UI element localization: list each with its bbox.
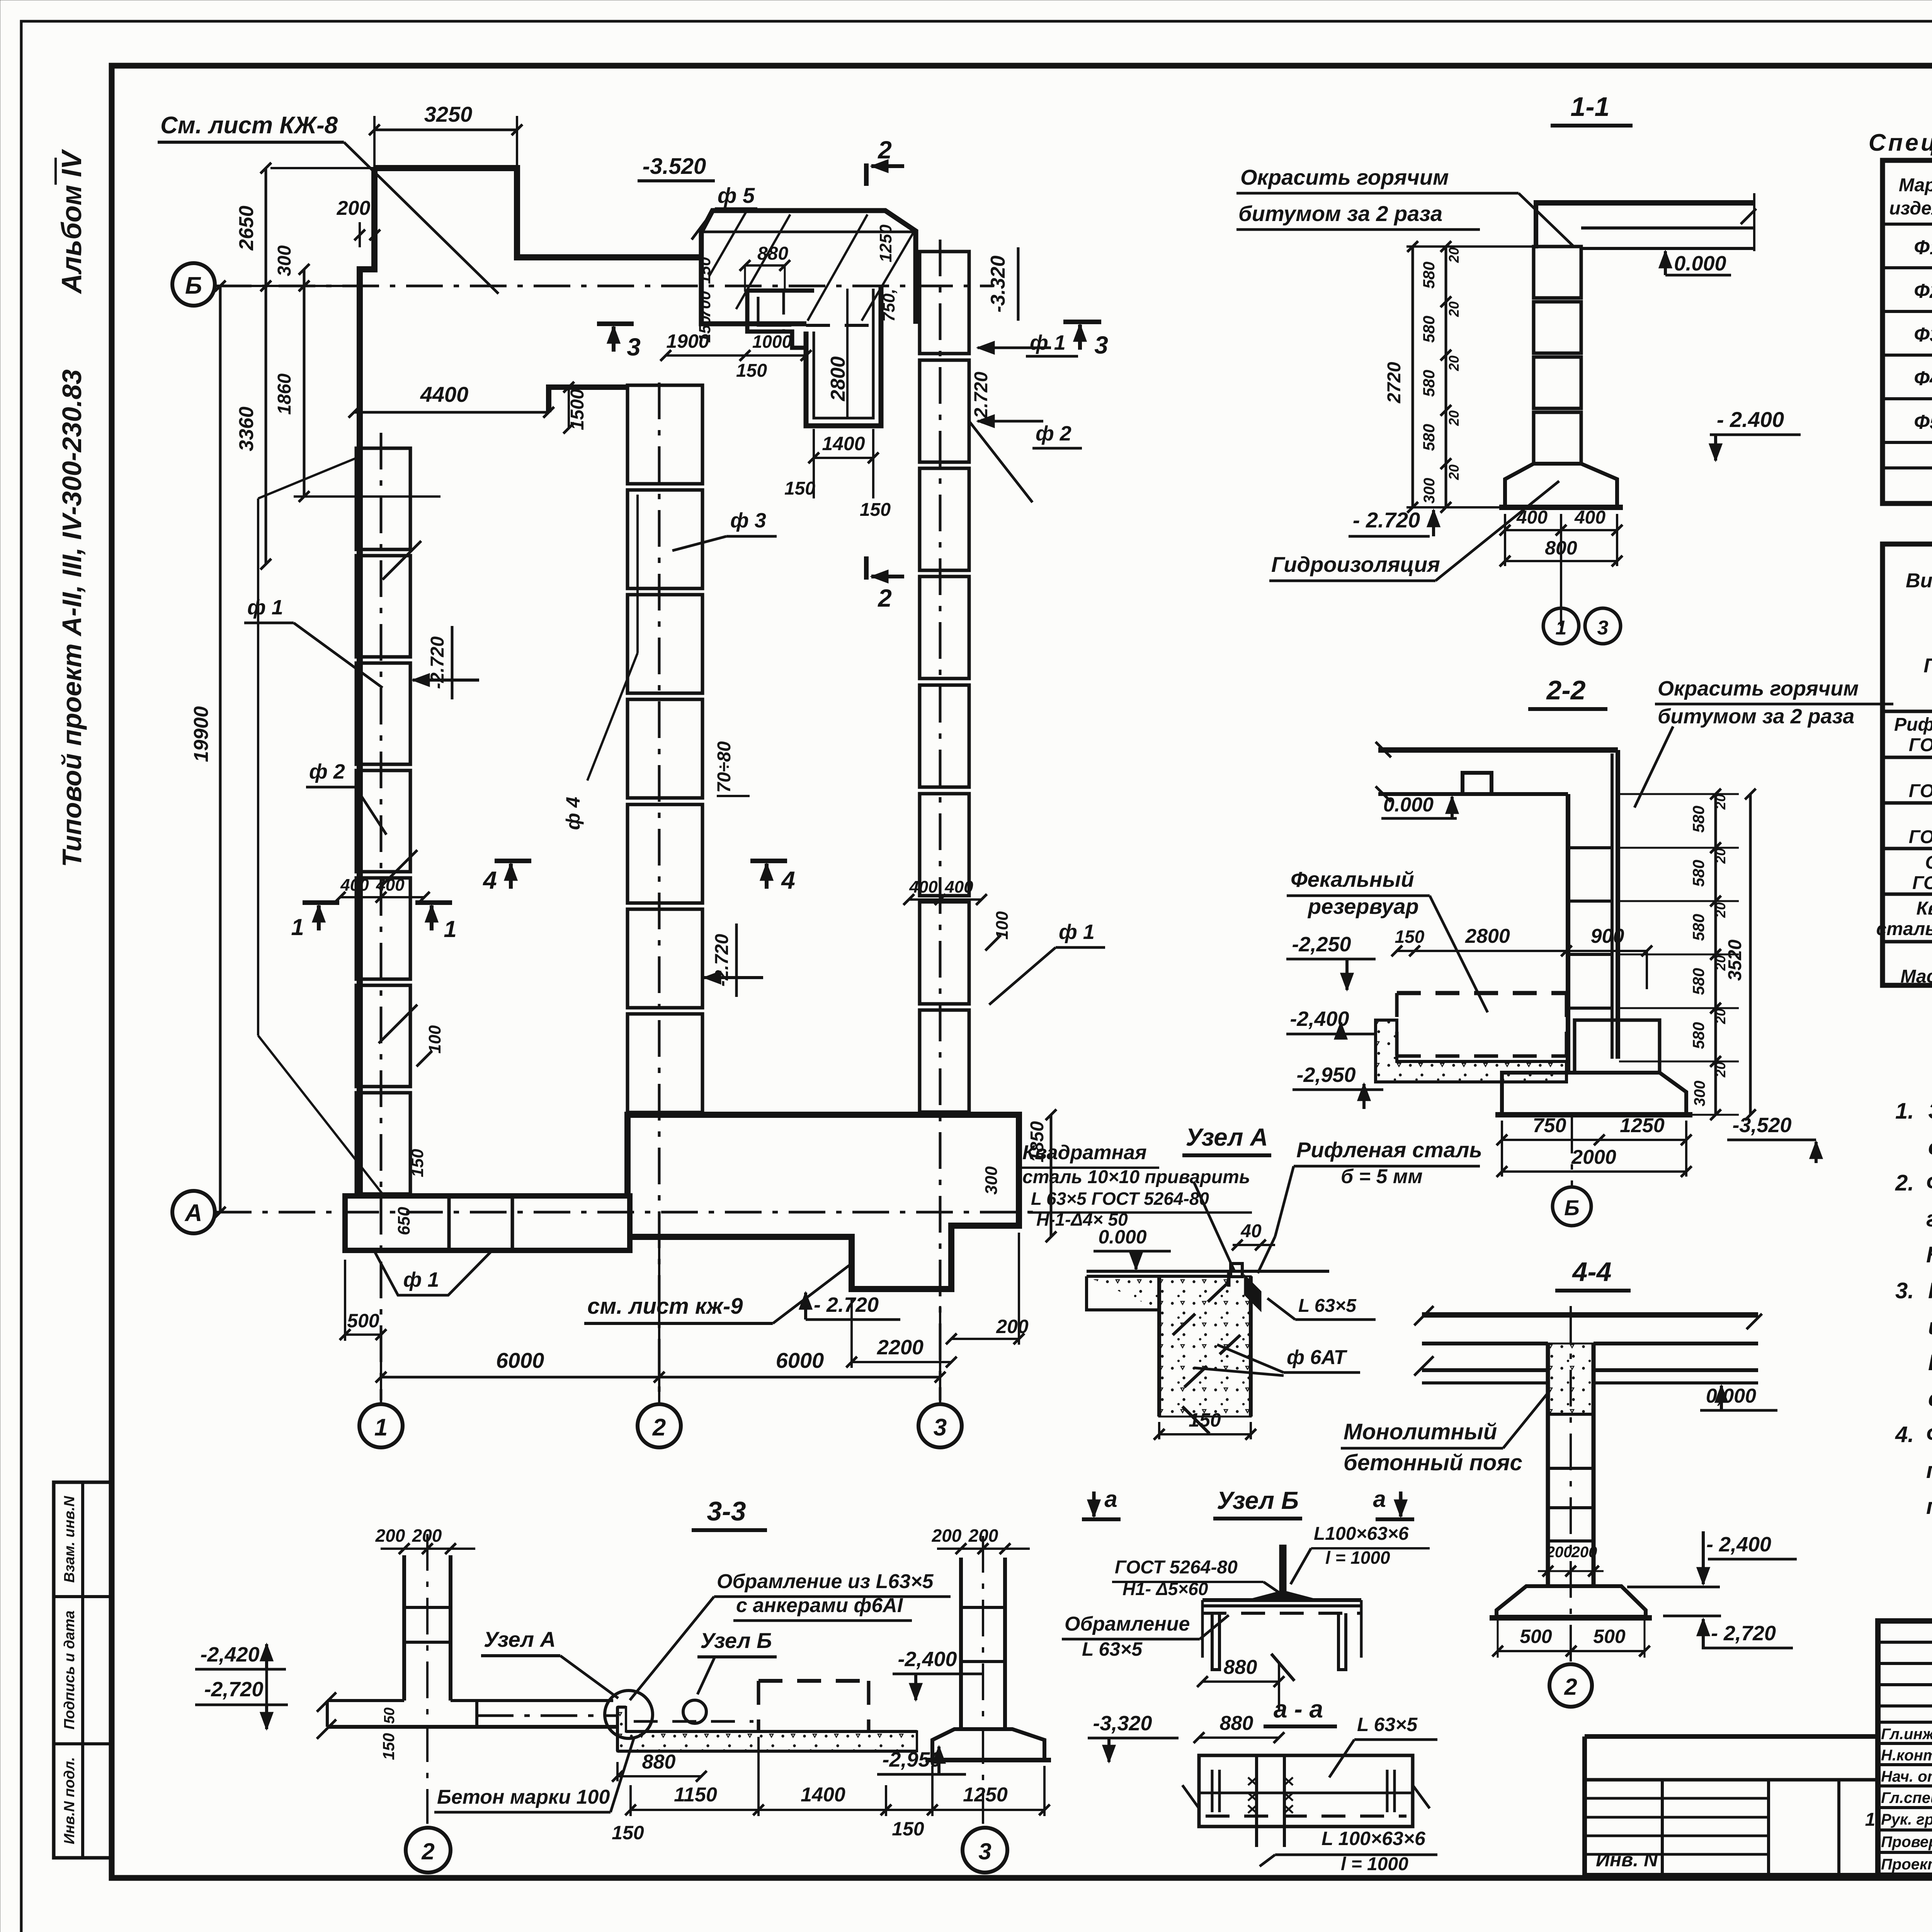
svg-text:20: 20 <box>1446 247 1462 263</box>
svg-text:200: 200 <box>412 1526 442 1546</box>
svg-text:Б: Б <box>1564 1196 1580 1220</box>
svg-text:Горизонтальная гидроизоляция: Горизонтальная гидроизоляция на отм. - 2… <box>1928 1278 1932 1303</box>
svg-text:ГОСТ, ТУ.: ГОСТ, ТУ. <box>1923 655 1932 677</box>
plan: long leader diagonals col1 <box>257 498 259 1036</box>
plan: axis 1 line <box>380 433 383 1400</box>
plan: section mark 2 top <box>864 163 869 186</box>
left margin stamp table <box>54 1482 112 1858</box>
svg-text:-3,520: -3,520 <box>1732 1114 1791 1137</box>
2-2 wall <box>1566 794 1570 1073</box>
svg-text:580: 580 <box>1420 424 1438 451</box>
svg-text:1250: 1250 <box>963 1784 1008 1806</box>
svg-text:L 63×5 ГОСТ 5264-80: L 63×5 ГОСТ 5264-80 <box>1031 1189 1209 1209</box>
plan: phi5 block hatched <box>701 211 916 324</box>
svg-text:Нач. отд.: Нач. отд. <box>1881 1768 1932 1785</box>
svg-text:песчаное основание при п: песчаное основание при песчаных грунтах … <box>1926 1458 1932 1483</box>
2-2 axis circle Б <box>1571 1117 1573 1186</box>
svg-text:из цементного раствора со: из цементного раствора состава 1:2 - 20 … <box>1928 1314 1932 1339</box>
metal table grid <box>1883 544 1932 985</box>
svg-text:Фекальный: Фекальный <box>1291 867 1414 891</box>
plan: axis circle 1 <box>359 1404 403 1447</box>
svg-text:- 2,720: - 2,720 <box>1711 1622 1776 1645</box>
svg-text:0.000: 0.000 <box>1098 1226 1146 1248</box>
plan: 4400 dim and step <box>354 411 549 414</box>
svg-text:650: 650 <box>395 1207 413 1235</box>
svg-text:-3.520: -3.520 <box>643 154 706 179</box>
svg-text:3: 3 <box>1597 617 1609 639</box>
plan: axis 2 line <box>658 383 661 1400</box>
svg-text:битумом за 2 раза: битумом за 2 раза <box>1658 705 1854 728</box>
svg-text:ф 3: ф 3 <box>730 509 766 532</box>
plan: dim 1400 <box>814 457 873 459</box>
plan: axis circle 3 <box>918 1404 962 1447</box>
svg-text:700: 700 <box>696 291 714 318</box>
svg-text:1250: 1250 <box>1620 1114 1665 1137</box>
svg-text:сталь 10×10 приварить: сталь 10×10 приварить <box>1022 1167 1250 1187</box>
svg-text:4.: 4. <box>1895 1422 1914 1447</box>
plan: block column 1 <box>356 448 410 549</box>
svg-text:грунта : Чн = 0,49, Сн= 2кПа: грунта : Чн = 0,49, Сн= 2кПа ; Е= 14,7 М… <box>1926 1206 1932 1231</box>
svg-text:580: 580 <box>1689 968 1708 995</box>
svg-text:1: 1 <box>1865 1810 1876 1830</box>
svg-text:0.000: 0.000 <box>1674 252 1726 275</box>
svg-text:Фундаментные плиты укладыв: Фундаментные плиты укладываются на вырав… <box>1926 1422 1932 1447</box>
svg-text:2000: 2000 <box>1571 1146 1616 1168</box>
svg-text:2: 2 <box>1564 1674 1577 1700</box>
svg-text:400: 400 <box>1516 507 1548 528</box>
svg-text:Подпись и дата: Подпись и дата <box>61 1611 78 1730</box>
svg-text:ГОСТ 8568-77*: ГОСТ 8568-77* <box>1909 735 1932 755</box>
svg-text:20: 20 <box>1713 794 1728 810</box>
3-3 узел Б circle <box>683 1700 706 1723</box>
узел Б detail <box>1202 1598 1361 1602</box>
svg-text:200: 200 <box>968 1526 998 1546</box>
svg-text:880: 880 <box>642 1751 676 1773</box>
svg-text:500: 500 <box>1520 1626 1552 1647</box>
узел А dim 150 <box>1159 1433 1251 1435</box>
svg-text:Рифленая сталь: Рифленая сталь <box>1296 1138 1482 1162</box>
specification table grid <box>1883 160 1932 503</box>
svg-text:4: 4 <box>482 866 497 894</box>
svg-text:750: 750 <box>1533 1114 1566 1137</box>
svg-text:Бетон марки 100: Бетон марки 100 <box>437 1786 610 1808</box>
svg-text:Узел Б: Узел Б <box>1217 1486 1299 1514</box>
plan: dim 6000+6000 bottom <box>381 1376 940 1379</box>
svg-text:- 2,400: - 2,400 <box>1706 1533 1771 1556</box>
svg-text:А: А <box>184 1200 202 1226</box>
3-3 right footing <box>932 1729 1044 1760</box>
svg-text:150: 150 <box>784 478 815 499</box>
svg-text:-2,420: -2,420 <box>200 1643 259 1666</box>
svg-text:1: 1 <box>374 1414 388 1441</box>
svg-text:19900: 19900 <box>190 706 213 762</box>
svg-text:880: 880 <box>1220 1712 1253 1735</box>
svg-text:500: 500 <box>347 1310 379 1332</box>
svg-text:ф 5: ф 5 <box>718 183 755 207</box>
svg-text:За отметку 0.000 принята: За отметку 0.000 принята условно планиро… <box>1928 1099 1932 1124</box>
svg-text:3520: 3520 <box>1725 939 1745 981</box>
svg-text:Гидроизоляция: Гидроизоляция <box>1271 552 1440 577</box>
2-2 tank dashed <box>1397 991 1567 995</box>
svg-text:Ф5: Ф5 <box>1914 411 1932 434</box>
svg-text:- 2.720: - 2.720 <box>814 1293 879 1316</box>
svg-text:Вид профиля: Вид профиля <box>1906 570 1932 592</box>
svg-text:L 100×63×6: L 100×63×6 <box>1321 1828 1426 1849</box>
4-4 dims 500 500 <box>1498 1650 1645 1652</box>
svg-text:3: 3 <box>978 1838 991 1864</box>
svg-text:Коэффициент трения бетона: Коэффициент трения бетона по грунту f ≥ … <box>1926 1242 1932 1267</box>
1-1 wall blocks <box>1534 247 1581 298</box>
3-3 left column <box>402 1555 406 1701</box>
3-3 axis circle 3 <box>963 1828 1007 1872</box>
svg-text:Узел Б: Узел Б <box>700 1628 772 1653</box>
plan: axis Б circle <box>172 263 215 306</box>
svg-text:-2.720: -2.720 <box>971 372 992 424</box>
svg-text:-3.320: -3.320 <box>987 255 1009 313</box>
svg-text:L 63×5: L 63×5 <box>1082 1638 1143 1660</box>
svg-text:Альбом IV: Альбом IV <box>56 148 87 294</box>
svg-text:580: 580 <box>1689 914 1708 941</box>
plan: overall dim 19900 <box>219 286 222 1212</box>
svg-text:ф 1: ф 1 <box>1030 331 1066 354</box>
svg-text:400: 400 <box>1574 507 1605 528</box>
svg-text:изделия: изделия <box>1889 198 1932 219</box>
svg-text:20: 20 <box>1713 1009 1728 1024</box>
svg-text:20: 20 <box>1713 848 1728 864</box>
svg-text:Рифленая сталь: Рифленая сталь <box>1894 714 1932 735</box>
svg-text:с анкерами ф6АI: с анкерами ф6АI <box>736 1594 903 1617</box>
plan: axis Б line <box>215 285 993 287</box>
svg-text:l = 1000: l = 1000 <box>1341 1854 1408 1874</box>
svg-text:1250: 1250 <box>876 224 895 262</box>
svg-text:3-3: 3-3 <box>707 1496 746 1526</box>
1-1 level 0.000 <box>1664 251 1667 275</box>
svg-text:1.: 1. <box>1895 1099 1914 1124</box>
svg-text:580: 580 <box>1420 370 1438 397</box>
svg-text:6000: 6000 <box>776 1348 824 1372</box>
svg-text:150: 150 <box>736 361 767 381</box>
svg-text:Инв. N: Инв. N <box>1596 1849 1658 1871</box>
svg-text:200: 200 <box>1571 1544 1597 1561</box>
svg-text:580: 580 <box>1689 860 1708 887</box>
4-4 axis circle 2 <box>1549 1664 1592 1707</box>
svg-text:750,: 750, <box>879 289 898 322</box>
svg-text:Ф3: Ф3 <box>1914 324 1932 346</box>
svg-text:Проверил: Проверил <box>1881 1833 1932 1850</box>
3-3 узел А circle <box>605 1690 653 1738</box>
plan: small chamber walls <box>747 289 814 293</box>
1-1 floor slabs <box>1534 200 1754 206</box>
svg-text:Стержень: Стержень <box>1925 852 1932 873</box>
svg-text:150: 150 <box>379 1733 398 1760</box>
svg-text:150: 150 <box>696 257 714 284</box>
svg-text:3: 3 <box>627 333 641 361</box>
svg-text:Марка: Марка <box>1899 175 1932 196</box>
plan: dim 3250 top <box>374 129 517 131</box>
3-3 bottom dims <box>617 1775 701 1777</box>
svg-text:Узел А: Узел А <box>484 1627 556 1651</box>
svg-text:Типовой проект А-II, III, IV: Типовой проект А-II, III, IV-300-230.83 <box>57 369 87 867</box>
plan: axis 3 line <box>939 240 942 1400</box>
svg-text:битумом за 2 раза: битумом за 2 раза <box>1238 201 1442 226</box>
svg-text:ГОСТ 5781-82: ГОСТ 5781-82 <box>1912 873 1932 893</box>
svg-text:а - а: а - а <box>1274 1695 1323 1723</box>
svg-text:20: 20 <box>1446 355 1462 371</box>
svg-text:50: 50 <box>381 1708 398 1724</box>
svg-text:3250: 3250 <box>424 102 473 126</box>
2-2 bottom dims <box>1502 1139 1686 1141</box>
svg-text:3: 3 <box>934 1414 947 1441</box>
svg-text:20: 20 <box>1713 1062 1728 1078</box>
svg-text:20: 20 <box>1446 301 1462 317</box>
svg-text:1000: 1000 <box>752 332 792 352</box>
svg-text:L100×63×6: L100×63×6 <box>1314 1524 1409 1544</box>
2-2 footing <box>1502 1073 1686 1115</box>
svg-text:ф 1: ф 1 <box>1059 920 1095 944</box>
svg-text:Окрасить горячим: Окрасить горячим <box>1658 677 1859 700</box>
plan: section mark 3 right <box>1078 325 1082 350</box>
svg-text:150: 150 <box>1395 927 1425 947</box>
svg-text:- 2.720: - 2.720 <box>1353 508 1420 532</box>
svg-text:ф 2: ф 2 <box>309 760 345 783</box>
svg-text:100: 100 <box>425 1025 444 1054</box>
3-3 dashed tank <box>759 1679 869 1683</box>
svg-text:см. лист кж-9: см. лист кж-9 <box>587 1294 743 1319</box>
svg-text:2: 2 <box>421 1838 434 1864</box>
svg-text:Н.контр.СС: Н.контр.СС <box>1881 1747 1932 1764</box>
title block outline <box>1878 1621 1932 1875</box>
svg-text:2: 2 <box>878 584 892 612</box>
svg-text:150: 150 <box>408 1149 427 1177</box>
4-4 slabs <box>1422 1312 1758 1318</box>
а-а dim 880 <box>1199 1736 1279 1739</box>
plan: bottom band left <box>345 1196 630 1250</box>
svg-text:См. лист КЖ-8: См. лист КЖ-8 <box>160 112 338 139</box>
4-4 footing <box>1497 1586 1646 1617</box>
svg-text:2200: 2200 <box>877 1336 923 1359</box>
svg-text:580: 580 <box>1420 316 1438 343</box>
svg-text:3.: 3. <box>1895 1278 1914 1303</box>
svg-text:l = 1000: l = 1000 <box>1325 1548 1390 1568</box>
2-2 right dim chain <box>1714 794 1717 1115</box>
svg-text:Н1- Δ5×60: Н1- Δ5×60 <box>1122 1579 1208 1599</box>
svg-text:1-1: 1-1 <box>1570 92 1609 122</box>
svg-text:300: 300 <box>982 1166 1001 1195</box>
svg-text:500: 500 <box>1593 1626 1626 1647</box>
svg-text:Масса металла: Масса металла <box>1900 966 1932 987</box>
svg-text:2720: 2720 <box>1384 362 1405 403</box>
svg-text:Узел А: Узел А <box>1186 1123 1268 1151</box>
svg-text:подсыпку толщиной 50 мм: подсыпку толщиной 50 мм при глинистых гр… <box>1926 1494 1932 1519</box>
left lower stamp extension <box>1585 1734 1878 1739</box>
svg-text:сталь ГОСТ 2591-71*: сталь ГОСТ 2591-71* <box>1876 919 1932 939</box>
3-3 axis circle 2 <box>406 1828 451 1872</box>
3-3 floor dash line <box>477 1714 617 1717</box>
svg-text:1150: 1150 <box>674 1784 717 1806</box>
svg-text:1: 1 <box>1556 617 1567 639</box>
svg-text:-2,720: -2,720 <box>204 1678 263 1701</box>
svg-text:с грунтом - окраска горячим: с грунтом - окраска горячим битумом за 2… <box>1928 1386 1932 1411</box>
plan: block column 3 <box>920 252 969 354</box>
3-3 tank floor <box>617 1707 917 1751</box>
1-1 dim chain 580/20 <box>1445 247 1447 507</box>
svg-text:2: 2 <box>878 136 892 164</box>
svg-text:200: 200 <box>932 1526 962 1546</box>
svg-text:150: 150 <box>892 1818 924 1840</box>
svg-text:2650: 2650 <box>235 206 258 251</box>
svg-text:1: 1 <box>444 916 456 942</box>
svg-text:Окрасить горячим: Окрасить горячим <box>1240 165 1449 189</box>
svg-text:4-4: 4-4 <box>1571 1257 1611 1287</box>
svg-text:ф 2: ф 2 <box>1036 422 1071 445</box>
svg-text:2800: 2800 <box>827 356 849 401</box>
svg-text:20: 20 <box>1713 902 1728 918</box>
svg-text:2.: 2. <box>1895 1170 1914 1196</box>
svg-text:-3,320: -3,320 <box>1093 1712 1152 1735</box>
svg-text:1: 1 <box>291 914 304 940</box>
svg-text:1860: 1860 <box>274 373 295 415</box>
svg-text:70÷80: 70÷80 <box>714 741 735 793</box>
svg-text:880: 880 <box>757 243 788 264</box>
svg-text:300: 300 <box>1691 1081 1708 1107</box>
svg-text:Квадратная: Квадратная <box>1022 1141 1147 1164</box>
plan: section mark 3 left <box>612 327 616 352</box>
svg-text:-2,400: -2,400 <box>898 1648 957 1671</box>
svg-text:1400: 1400 <box>801 1784 845 1806</box>
svg-text:Ф2: Ф2 <box>1914 280 1932 303</box>
svg-text:3: 3 <box>1094 331 1108 359</box>
svg-text:Гл.спец.: Гл.спец. <box>1881 1789 1932 1806</box>
svg-text:ГОСТ 8509-72*: ГОСТ 8509-72* <box>1909 781 1932 801</box>
svg-text:отметка поверхности земли.: отметка поверхности земли. <box>1928 1134 1932 1160</box>
svg-text:-2,250: -2,250 <box>1292 933 1351 956</box>
svg-text:300: 300 <box>1421 478 1438 504</box>
plan: bottom big slab <box>628 1115 1019 1289</box>
svg-text:-2,950: -2,950 <box>1296 1063 1355 1087</box>
svg-text:Обрамление: Обрамление <box>1065 1613 1190 1635</box>
svg-text:1400: 1400 <box>822 433 865 454</box>
plan: upper-left wall block outline <box>374 168 700 257</box>
svg-text:Фундаменты разработаны для: Фундаменты разработаны для следующих хар… <box>1926 1170 1932 1196</box>
svg-text:ф 4: ф 4 <box>562 797 584 830</box>
svg-text:300: 300 <box>274 245 295 276</box>
plan: section marks 4 <box>509 864 513 889</box>
plan: section mark 2 bottom <box>864 556 869 580</box>
svg-text:0,000: 0,000 <box>1706 1385 1756 1407</box>
svg-text:4400: 4400 <box>420 382 469 406</box>
svg-text:880: 880 <box>1224 1656 1257 1679</box>
svg-text:150: 150 <box>860 500 891 520</box>
2-2 floor slab <box>1378 747 1618 753</box>
svg-text:L 63×5: L 63×5 <box>1298 1296 1357 1316</box>
plan: axis А line <box>215 1211 1039 1214</box>
svg-text:Б: Б <box>185 272 202 299</box>
plan: left dim chain 2650/3360 <box>265 168 267 564</box>
svg-text:б = 5 мм: б = 5 мм <box>1341 1165 1423 1188</box>
svg-text:200: 200 <box>375 1526 405 1546</box>
plan: block column 2 <box>628 385 702 484</box>
svg-text:Проектир: Проектир <box>1881 1856 1932 1873</box>
svg-text:Квадратная: Квадратная <box>1917 898 1932 919</box>
svg-text:ф 6АТ: ф 6АТ <box>1287 1346 1348 1369</box>
svg-text:L 63×5: L 63×5 <box>1357 1714 1418 1735</box>
svg-text:20: 20 <box>1446 464 1462 480</box>
svg-text:Монолитный: Монолитный <box>1344 1419 1497 1444</box>
svg-text:Обрамление из L63×5: Обрамление из L63×5 <box>717 1570 934 1593</box>
svg-text:Ф4: Ф4 <box>1914 367 1932 390</box>
2-2 tank concrete <box>1376 1020 1566 1082</box>
а-а detail box <box>1199 1755 1413 1827</box>
1-1 dims 400 400 800 <box>1505 529 1617 531</box>
1-1 axis circles 1 and 3 <box>1543 608 1579 644</box>
svg-text:бетонный пояс: бетонный пояс <box>1344 1450 1522 1475</box>
svg-text:ф 1: ф 1 <box>403 1268 439 1291</box>
svg-text:20: 20 <box>1446 410 1462 426</box>
svg-text:580: 580 <box>1420 262 1438 289</box>
узел А detail <box>1087 1270 1329 1273</box>
plan: dim chain 300/1860 <box>303 269 306 497</box>
plan: section marks 1 <box>317 905 321 930</box>
svg-text:200: 200 <box>337 197 371 219</box>
4-4 column <box>1546 1344 1550 1586</box>
svg-text:а: а <box>1373 1486 1386 1512</box>
svg-text:Взам. инв.N: Взам. инв.N <box>61 1495 78 1583</box>
svg-text:150: 150 <box>612 1822 644 1844</box>
svg-text:Инв.N подл.: Инв.N подл. <box>61 1757 78 1844</box>
svg-text:200: 200 <box>1546 1544 1572 1561</box>
svg-text:580: 580 <box>1689 1022 1708 1049</box>
plan: big chamber walls <box>806 286 881 426</box>
svg-text:2: 2 <box>652 1414 666 1441</box>
svg-text:а: а <box>1104 1486 1117 1512</box>
svg-text:1900: 1900 <box>666 330 709 352</box>
svg-text:580: 580 <box>1689 806 1708 833</box>
svg-text:резервуар: резервуар <box>1307 894 1419 918</box>
1-1 footing <box>1505 464 1617 507</box>
svg-text:- 2.400: - 2.400 <box>1717 407 1784 432</box>
svg-text:Вертикальная гидроизоляция: Вертикальная гидроизоляция наружных стен… <box>1928 1350 1932 1375</box>
svg-text:ф 1: ф 1 <box>247 596 283 619</box>
plan: axis circle 2 <box>638 1404 681 1447</box>
svg-text:400: 400 <box>376 876 405 895</box>
svg-text:6000: 6000 <box>496 1348 544 1372</box>
svg-text:100: 100 <box>993 911 1012 940</box>
svg-text:Ф1: Ф1 <box>1914 236 1932 259</box>
svg-text:2-2: 2-2 <box>1546 675 1585 705</box>
svg-text:Спецификация к схеме элемент: Спецификация к схеме элементов расположе… <box>1869 129 1932 156</box>
svg-text:4: 4 <box>781 866 795 894</box>
svg-text:ГОСТ 5264-80: ГОСТ 5264-80 <box>1115 1557 1238 1578</box>
plan: axis А circle <box>172 1191 215 1233</box>
3-3 right column <box>959 1558 963 1729</box>
svg-text:3360: 3360 <box>235 406 258 451</box>
узел Б dim 880 <box>1202 1680 1279 1683</box>
svg-text:150: 150 <box>1189 1409 1221 1431</box>
svg-text:0.000: 0.000 <box>1383 794 1434 816</box>
svg-text:ГОСТ 8510-72*: ГОСТ 8510-72* <box>1909 827 1932 847</box>
svg-text:Гл.инж.пр.: Гл.инж.пр. <box>1881 1726 1932 1743</box>
svg-text:2800: 2800 <box>1465 925 1510 947</box>
svg-text:Рук. груп: Рук. груп <box>1881 1811 1932 1828</box>
svg-text:900: 900 <box>1591 925 1624 947</box>
svg-text:400: 400 <box>944 878 973 896</box>
svg-text:40: 40 <box>1240 1221 1262 1242</box>
svg-text:1500: 1500 <box>567 389 588 430</box>
